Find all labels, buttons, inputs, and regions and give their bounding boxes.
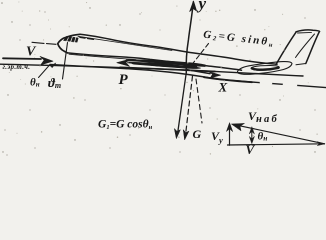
G arrowhead — [183, 130, 189, 140]
wing main dark sliver — [126, 60, 205, 67]
airplane nose outline — [58, 34, 80, 53]
tail fin inner top line — [298, 31, 312, 34]
drag vector X arrowhead — [209, 72, 221, 78]
triangle Vy up arrowhead — [226, 123, 232, 132]
horizon line — [0, 64, 303, 76]
tail fin trailing edge — [306, 31, 320, 63]
airplane fuselage top line — [80, 34, 277, 64]
triangle hypotenuse left arrowhead — [232, 123, 245, 130]
horizon thick mid portion — [120, 67, 215, 71]
engine dark blob — [149, 64, 175, 67]
vector V shaft — [3, 57, 41, 60]
triangle hypotenuse — [238, 125, 325, 143]
stabilizer inner dark bottom — [252, 68, 279, 70]
thrust vector P arrowhead — [117, 59, 130, 66]
svg-text:G: G — [193, 127, 202, 141]
scan noise speckles — [1, 2, 315, 155]
paper background — [0, 0, 326, 157]
airplane fuselage bottom double line — [69, 54, 136, 59]
path fade gaps — [261, 83, 296, 86]
vector V arrowhead — [40, 56, 53, 64]
dark knot at wing root crossing — [184, 65, 197, 69]
triangle right vertex tip — [317, 142, 325, 146]
svg-text:P: P — [119, 72, 129, 88]
angle indicator line theta-n — [39, 65, 51, 78]
tail bottom closing line — [296, 64, 306, 65]
triangle base V — [228, 144, 325, 145]
G1 force vector (solid, perpendicular to path) — [178, 73, 187, 135]
flight path thick mid portion — [204, 77, 252, 82]
cabin window dashes — [80, 37, 94, 39]
flight path line — [50, 65, 326, 88]
tail fin leading edge — [276, 32, 296, 64]
svg-text:y: y — [197, 0, 207, 13]
Y axis arrowhead — [190, 1, 197, 12]
airplane fuselage inner line — [78, 36, 172, 50]
tail fin rudder line — [296, 34, 315, 58]
angle tick arrow — [51, 63, 57, 68]
airplane windshield panes — [64, 36, 79, 42]
wing second sliver — [131, 62, 200, 68]
tail fin top edge — [296, 30, 320, 32]
svg-text:X: X — [218, 80, 228, 95]
angle double arrow down head — [249, 136, 254, 143]
angle indicator line pitch — [63, 43, 68, 80]
Y axis dashed extension — [196, 79, 202, 123]
G1 arrowhead — [174, 129, 180, 139]
thrust vector P shaft — [128, 63, 194, 65]
angle double arrow shaft — [251, 129, 253, 142]
airplane fuselage bottom line — [68, 53, 242, 70]
horizontal stabilizer inner ellipse — [251, 66, 279, 71]
angle double arrow up head — [249, 127, 254, 134]
G weight vector (dashed vertical) — [186, 76, 193, 135]
G2 dashed leader line — [192, 44, 209, 65]
svg-text:г.эр.т.ч.: г.эр.т.ч. — [3, 63, 31, 71]
svg-text:G1=G cosθн: G1=G cosθн — [98, 119, 153, 132]
Y axis shaft — [186, 2, 193, 73]
drag vector X shaft — [186, 70, 210, 74]
horizontal stabilizer outer lens — [237, 62, 292, 75]
aircraft axis dashes left of nose — [32, 42, 56, 44]
triangle left side Vy — [229, 125, 231, 145]
svg-text:V: V — [246, 142, 256, 157]
